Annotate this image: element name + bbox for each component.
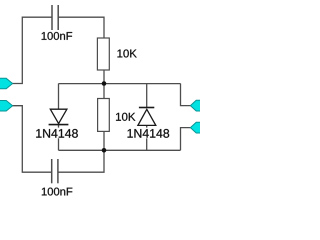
wire: node 1 to resistor R2 top (103, 84, 105, 99)
capacitor C1 value 100nF (42, 32, 72, 40)
capacitor C2 value 100nF (42, 188, 72, 196)
capacitor C2 plates (52, 159, 58, 183)
diode D2 label background (126, 128, 171, 139)
wire: right diode D2 cathode stem (146, 84, 148, 108)
wire: bottom capacitor to left terminal B (12, 106, 52, 173)
terminal D (right bottom) (190, 122, 201, 133)
diode D2 label 1N4148 (128, 129, 170, 138)
resistor R2 (98, 99, 110, 132)
diode D1 label 1N4148 (36, 129, 78, 138)
capacitor C1 plates (52, 5, 58, 30)
wire: lower horizontal rail (59, 149, 181, 151)
resistor R1 value 10K (117, 49, 136, 57)
resistor R1 (97, 38, 109, 70)
resistor R2 value 10K (116, 113, 135, 121)
terminal B (left bottom) (0, 101, 13, 112)
wire: left diode D1 anode stem (58, 84, 60, 110)
node 2 junction dot (102, 148, 107, 153)
terminal C (right top) (190, 100, 201, 111)
terminal A (left top) (0, 78, 13, 89)
wire: resistor R1 bottom to node 1 (103, 70, 105, 84)
diode D1 (points down) (49, 109, 69, 124)
node 1 junction dot (102, 81, 107, 86)
wire: lower rail to right terminal D (181, 128, 191, 151)
wire: resistor R2 bottom to node 2 (103, 131, 105, 150)
wire: left terminal A to top capacitor (12, 17, 52, 83)
diode D2 (points up) (138, 108, 156, 126)
wire: upper horizontal rail (59, 83, 181, 85)
wire: top capacitor to resistor R1 top (59, 17, 105, 38)
wire: left diode D1 cathode stem to lower rail (58, 125, 60, 151)
diode D1 label background (34, 128, 79, 139)
wire: node 2 down to bottom capacitor (58, 150, 104, 172)
wire: right diode D2 anode stem to lower rail (146, 125, 148, 150)
wire: upper rail to right terminal C (181, 84, 191, 106)
